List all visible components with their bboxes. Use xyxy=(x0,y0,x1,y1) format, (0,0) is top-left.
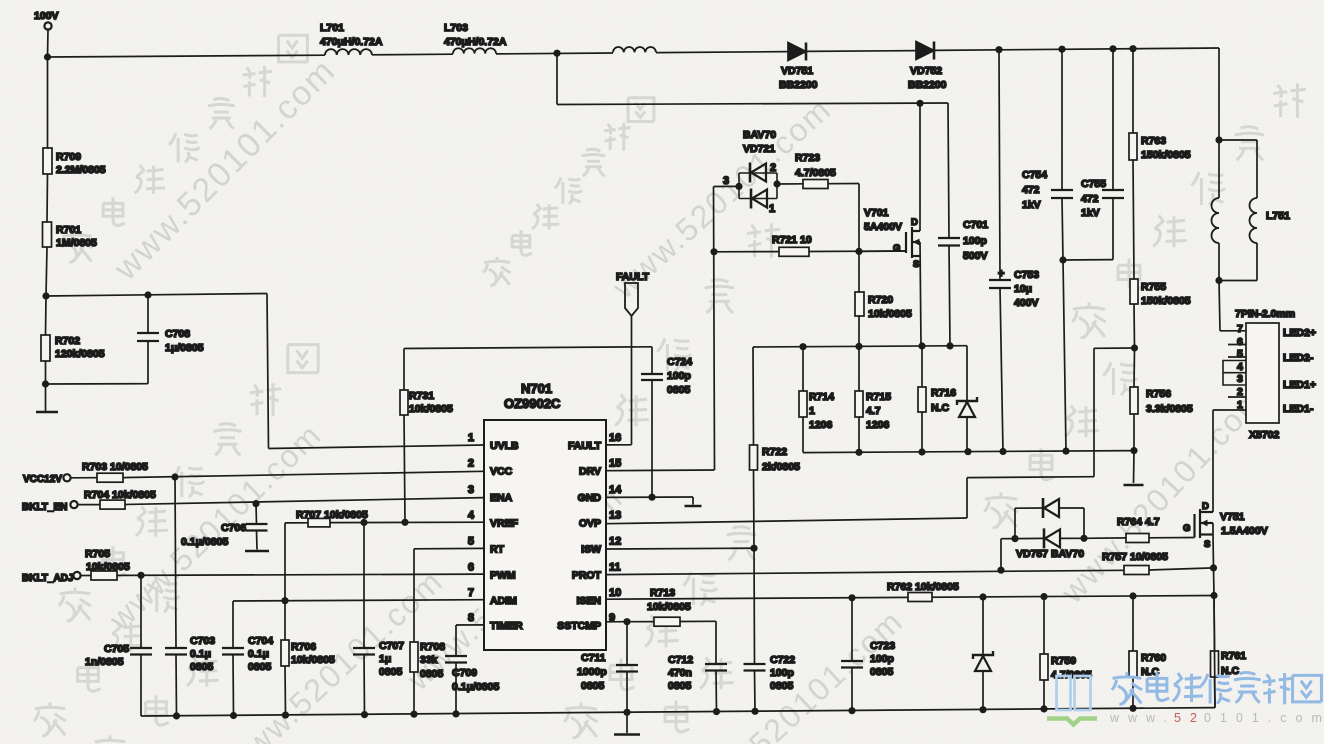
watermark chinese run right-top xyxy=(1072,303,1106,338)
diode VD757 D2 symbol xyxy=(1043,528,1046,548)
connector X8702 body xyxy=(1246,323,1279,423)
resistor R713 xyxy=(654,617,680,626)
watermark chinese run right-mid xyxy=(984,493,1018,528)
svg-text:0805: 0805 xyxy=(190,661,214,673)
wire V701 drain lead xyxy=(919,103,921,231)
wire C704 bottom lead xyxy=(232,655,235,716)
resistor R703 xyxy=(97,473,123,482)
svg-text:SSTCMP: SSTCMP xyxy=(557,620,601,632)
svg-text:VD751: VD751 xyxy=(781,65,813,77)
junction VREF/R731 xyxy=(401,519,408,526)
svg-text:R756: R756 xyxy=(1146,388,1171,400)
wire OVP jog right xyxy=(967,476,1094,479)
junction lower R716 xyxy=(918,448,925,455)
svg-text:C711: C711 xyxy=(581,652,606,664)
wire pin13 OVP xyxy=(606,518,967,524)
wire L751 right top lead xyxy=(1256,140,1258,198)
svg-text:1206: 1206 xyxy=(866,419,890,431)
resistor R755 xyxy=(1130,279,1138,304)
resistor R756 xyxy=(1130,387,1138,414)
wire R705 to pin6 PWM xyxy=(117,574,484,575)
wire DRV vertical to gate node xyxy=(714,187,715,471)
terminal BKLT_ADJ xyxy=(73,572,80,579)
inductor L751 left winding xyxy=(1212,198,1220,243)
wire V751 source down xyxy=(1212,535,1215,568)
svg-text:LED1+: LED1+ xyxy=(1283,379,1316,391)
resistor R721 xyxy=(779,247,809,256)
wire R763-R755 xyxy=(1133,160,1134,279)
svg-text:R731: R731 xyxy=(409,390,434,402)
resistor R759 xyxy=(1040,654,1048,680)
wire VD757 right vertical xyxy=(1083,508,1085,538)
svg-text:8: 8 xyxy=(468,612,474,624)
wire VD757 bottom right xyxy=(1060,537,1084,539)
svg-text:5A400V: 5A400V xyxy=(864,221,902,233)
svg-text:R721 10: R721 10 xyxy=(772,234,812,246)
junction VD721 pin3 xyxy=(735,183,742,190)
watermark chinese run center-up xyxy=(483,257,510,286)
diode zener VD1 xyxy=(957,397,977,405)
junction L751 bottom xyxy=(1215,277,1222,284)
svg-text:FAULT: FAULT xyxy=(568,440,602,452)
svg-text:BB2200: BB2200 xyxy=(779,79,818,91)
junction R721/R723/R720 xyxy=(855,248,862,255)
wire C712 top lead xyxy=(715,621,717,664)
svg-text:10k/0805: 10k/0805 xyxy=(868,308,912,320)
svg-text:1kV: 1kV xyxy=(1022,199,1041,211)
logo icon open book xyxy=(1047,676,1097,725)
wire R714 top lead xyxy=(802,347,804,391)
svg-text:16: 16 xyxy=(609,432,621,444)
junction bus R760 xyxy=(1129,705,1136,712)
svg-text:R704 10k/0805: R704 10k/0805 xyxy=(84,489,156,501)
capacitor C724 xyxy=(641,374,663,380)
junction bus C707 xyxy=(361,711,368,718)
resistor R722 xyxy=(750,445,758,470)
wire R760 top lead xyxy=(1132,596,1134,651)
watermark chinese run top-left xyxy=(62,230,92,262)
svg-text:OZ9902C: OZ9902C xyxy=(504,396,561,411)
junction bus R708 xyxy=(410,711,417,718)
capacitor C712 xyxy=(705,664,727,671)
wire pin15 DRV xyxy=(606,469,715,472)
ground sense chain xyxy=(1124,484,1144,487)
svg-text:1: 1 xyxy=(769,203,775,215)
junction C708 top xyxy=(144,291,151,298)
svg-text:BB2200: BB2200 xyxy=(908,79,947,91)
wire C712 bottom lead xyxy=(715,671,718,712)
wire C708 return xyxy=(46,383,149,385)
node FAULT flag xyxy=(625,283,638,316)
wire to R764 xyxy=(1084,537,1126,539)
wire R709 top xyxy=(47,57,49,148)
svg-text:11: 11 xyxy=(609,561,621,573)
junction sense R714 xyxy=(799,343,806,350)
svg-text:R764 4.7: R764 4.7 xyxy=(1117,516,1160,528)
svg-text:G: G xyxy=(1183,523,1190,534)
wire to R713 xyxy=(627,621,654,623)
svg-text:52: 52 xyxy=(1174,711,1206,725)
wire UVLB vertical xyxy=(267,294,269,449)
junction lower R756 xyxy=(1130,447,1137,454)
svg-text:PROT: PROT xyxy=(572,569,602,581)
junction bus C722 xyxy=(751,708,758,715)
svg-text:ADIM: ADIM xyxy=(490,595,517,607)
wire C707 top lead xyxy=(363,523,365,649)
wire V751 body-source xyxy=(1212,523,1214,535)
svg-text:0805: 0805 xyxy=(581,680,605,692)
junction L751 top xyxy=(1215,136,1222,143)
wire C703 top lead xyxy=(175,477,176,648)
svg-text:0.1μ/0805: 0.1μ/0805 xyxy=(452,681,499,693)
svg-text:C707: C707 xyxy=(379,640,404,652)
junction bus R759 xyxy=(1040,705,1047,712)
wire C707 bottom lead xyxy=(363,655,366,715)
junction rail C754 xyxy=(1058,46,1065,53)
wire R731 top lead xyxy=(403,349,405,391)
wire C754-C755 join xyxy=(1063,259,1113,261)
wire C724 bottom lead xyxy=(651,381,653,498)
wire zener1 top lead xyxy=(966,346,968,401)
resistor R714 xyxy=(799,391,807,417)
logo chinese text xyxy=(1112,672,1322,704)
diode VD721 D2 xyxy=(750,189,753,209)
wire R723 right xyxy=(828,183,859,185)
svg-text:0.1μ: 0.1μ xyxy=(248,648,269,660)
resistor R731 xyxy=(400,390,408,415)
svg-text:R707 10k/0805: R707 10k/0805 xyxy=(296,509,368,521)
svg-text:1μ/0805: 1μ/0805 xyxy=(165,342,204,354)
wire top rail seg2 xyxy=(372,53,453,56)
junction VCC/C703 xyxy=(171,473,178,480)
resistor R760 xyxy=(1129,651,1137,677)
wire BKLT_ADJ to R705 xyxy=(81,575,91,577)
wire VD757 to PROT xyxy=(1000,539,1002,571)
capacitor C708 xyxy=(137,333,159,341)
watermark chinese run mid-left xyxy=(59,587,91,621)
svg-text:R702: R702 xyxy=(55,335,80,347)
svg-text:N701: N701 xyxy=(521,381,552,396)
svg-text:7PIN-2.0mm: 7PIN-2.0mm xyxy=(1235,308,1295,320)
svg-text:0101.com: 0101.com xyxy=(1204,711,1324,725)
junction sense R716 xyxy=(918,342,925,349)
svg-text:6: 6 xyxy=(1237,336,1243,348)
svg-text:1206: 1206 xyxy=(809,419,833,431)
capacitor C707 xyxy=(353,648,375,655)
wire pin6 stub xyxy=(1228,344,1246,346)
svg-text:6: 6 xyxy=(468,561,474,573)
svg-text:1M/0805: 1M/0805 xyxy=(56,237,97,249)
svg-text:R716: R716 xyxy=(931,387,956,399)
wire R731 to C724 top xyxy=(404,347,652,349)
wire divider to C708/UVLB xyxy=(46,294,267,297)
resistor R705 xyxy=(91,571,117,580)
wire C722 top lead xyxy=(753,548,756,664)
resistor R723 xyxy=(803,180,828,189)
svg-text:10μ: 10μ xyxy=(1014,283,1032,295)
wire C755 top lead xyxy=(1112,49,1114,190)
wire R721 left xyxy=(714,251,779,253)
svg-text:GND: GND xyxy=(578,492,602,504)
svg-text:R757 10/0805: R757 10/0805 xyxy=(1102,551,1168,563)
wire top rail seg6 xyxy=(934,48,1219,50)
wire pin14 GND xyxy=(606,496,693,498)
junction rail2 V701 D xyxy=(916,100,923,107)
wire C709 top lead xyxy=(455,625,457,656)
svg-text:L701: L701 xyxy=(320,22,344,34)
op-amp U1: IC N701 OZ9902C body xyxy=(484,420,606,650)
resistor R715 xyxy=(855,391,863,417)
svg-text:TIMER: TIMER xyxy=(490,620,523,632)
wire C701 bottom lead xyxy=(949,246,950,346)
svg-text:100p: 100p xyxy=(963,235,987,247)
svg-text:C706: C706 xyxy=(221,522,246,534)
svg-text:10k/0805: 10k/0805 xyxy=(291,654,335,666)
svg-text:150k/0805: 150k/0805 xyxy=(1141,295,1191,307)
svg-text:L751: L751 xyxy=(1266,210,1290,222)
svg-text:R713: R713 xyxy=(650,587,675,599)
junction bus C703 xyxy=(173,712,180,719)
wire OVP to R755/R756 xyxy=(1094,347,1135,349)
svg-text:2k/0805: 2k/0805 xyxy=(762,461,800,473)
wire source to bus xyxy=(1214,596,1215,708)
wire R723 to gate node xyxy=(858,184,860,252)
svg-text:C724: C724 xyxy=(667,356,692,368)
svg-text:14: 14 xyxy=(609,484,622,496)
junction VD757 left xyxy=(1011,535,1018,542)
wire R714 bottom lead xyxy=(802,417,804,453)
resistor R708 xyxy=(410,642,418,672)
svg-text:C723: C723 xyxy=(870,640,895,652)
svg-text:R760: R760 xyxy=(1141,652,1166,664)
svg-text:www.: www. xyxy=(1109,711,1176,725)
svg-text:VCC12V: VCC12V xyxy=(23,474,62,485)
watermark chinese run bottom-left corner xyxy=(94,735,126,744)
resistor R704 xyxy=(100,500,125,509)
junction VREF/C707 xyxy=(360,519,367,526)
wire R716 top lead xyxy=(921,346,923,387)
junction R755/R756/OVP xyxy=(1131,344,1138,351)
svg-text:ISW: ISW xyxy=(581,544,601,556)
svg-text:R703 10/0805: R703 10/0805 xyxy=(82,461,148,473)
junction sense C701 xyxy=(946,342,953,349)
resistor R761 xyxy=(1211,651,1219,677)
watermark chinese run bottom-left xyxy=(34,702,66,736)
wire OVP vertical xyxy=(1093,348,1095,476)
wire zener2 top lead xyxy=(982,597,984,655)
ground left divider xyxy=(36,411,58,414)
svg-text:R722: R722 xyxy=(762,446,787,458)
wire sense rail bottom xyxy=(803,451,1134,453)
junction R702/C708 xyxy=(42,380,49,387)
svg-text:5: 5 xyxy=(468,536,474,548)
wire R707 left xyxy=(285,522,308,524)
svg-text:R759: R759 xyxy=(1051,655,1076,667)
wire C705 top lead xyxy=(140,575,142,648)
svg-text:4.7/0805: 4.7/0805 xyxy=(795,167,836,179)
svg-text:0805: 0805 xyxy=(379,666,403,678)
junction 100V rail xyxy=(44,53,51,60)
svg-text:4: 4 xyxy=(468,509,475,521)
capacitor C723 xyxy=(841,661,863,668)
wire VD757 left vertical xyxy=(1014,508,1016,538)
wire L751 left top lead xyxy=(1218,140,1220,198)
svg-text:D: D xyxy=(1202,501,1209,512)
svg-text:R714: R714 xyxy=(809,391,834,403)
svg-text:2.2M/0805: 2.2M/0805 xyxy=(56,164,106,176)
junction R757/V751 S xyxy=(1210,564,1217,571)
wire pin2 stub xyxy=(1228,396,1246,398)
wire C754C755 to lower rail xyxy=(1063,260,1066,451)
svg-text:R755: R755 xyxy=(1141,281,1166,293)
svg-text:1: 1 xyxy=(468,432,474,444)
ground pin14 xyxy=(685,505,702,508)
junction PWM/C705 xyxy=(137,572,144,579)
wire R702 top xyxy=(45,296,48,335)
wire R757 to V751 source xyxy=(1149,568,1214,570)
svg-text:C703: C703 xyxy=(190,635,215,647)
svg-text:X8702: X8702 xyxy=(1249,429,1280,441)
svg-text:BAV70: BAV70 xyxy=(743,129,776,141)
wire pin16 FAULT xyxy=(606,444,632,446)
svg-text:120k/0805: 120k/0805 xyxy=(55,348,105,360)
svg-text:500V: 500V xyxy=(963,250,988,262)
svg-text:1kV: 1kV xyxy=(1081,207,1100,219)
svg-text:R762 10k/0805: R762 10k/0805 xyxy=(887,581,959,593)
wire R731 bottom lead xyxy=(404,415,405,522)
svg-text:0805: 0805 xyxy=(248,661,272,673)
diode VD751 xyxy=(788,43,806,61)
svg-text:7: 7 xyxy=(1237,323,1243,335)
svg-text:LED2-: LED2- xyxy=(1283,352,1314,364)
svg-text:100p: 100p xyxy=(667,370,691,382)
svg-text:15: 15 xyxy=(609,458,621,470)
junction lower R715 xyxy=(855,449,862,456)
svg-text:12: 12 xyxy=(609,536,621,548)
wire TIMER to C709 xyxy=(456,624,484,626)
inductor L701 xyxy=(325,49,372,55)
wire pin7 stub xyxy=(1220,330,1246,332)
svg-text:0805: 0805 xyxy=(770,680,794,692)
wire R708 bottom lead xyxy=(413,672,415,714)
svg-text:R720: R720 xyxy=(868,294,893,306)
junction ENA/C706 xyxy=(252,500,259,507)
wire bottom bus xyxy=(141,708,1215,716)
svg-text:R723: R723 xyxy=(795,152,820,164)
resistor R720 xyxy=(855,292,864,316)
inductor L705 xyxy=(613,47,656,52)
terminal 100V xyxy=(44,22,51,29)
wire R756 top lead xyxy=(1133,348,1136,387)
svg-text:C712: C712 xyxy=(668,654,693,666)
svg-text:C708: C708 xyxy=(165,328,190,340)
junction bus C709 xyxy=(452,710,459,717)
junction ISEN/V751 S xyxy=(1210,592,1217,599)
svg-text:0805: 0805 xyxy=(870,666,894,678)
svg-text:RT: RT xyxy=(490,544,505,556)
junction lower C754 xyxy=(1062,448,1069,455)
svg-text:C701: C701 xyxy=(963,219,988,231)
inductor L703 xyxy=(453,48,496,53)
jumper pins 4-3 X8702 xyxy=(1223,361,1246,386)
wire R722 bottom lead xyxy=(753,470,756,548)
svg-text:PWM: PWM xyxy=(490,569,516,581)
wire R764 to gate xyxy=(1149,537,1195,539)
svg-text:100p: 100p xyxy=(870,653,894,665)
svg-text:470μH/0.72A: 470μH/0.72A xyxy=(444,36,507,48)
wire gate to R721 xyxy=(859,250,906,252)
wire zener1 bottom lead xyxy=(966,417,968,452)
svg-text:0805: 0805 xyxy=(668,680,692,692)
wire R720 top lead xyxy=(858,251,860,292)
wire R715 bottom lead xyxy=(858,417,860,452)
terminal VCC12V xyxy=(63,474,70,481)
wire C711 bottom lead xyxy=(626,672,628,713)
wire L751 left bottom lead xyxy=(1218,243,1220,281)
wire C753 top lead xyxy=(999,50,1000,279)
svg-text:ENA: ENA xyxy=(490,492,513,504)
wire FAULT stem xyxy=(631,316,633,445)
junction bus zener xyxy=(979,706,986,713)
wire VD721 to R723 xyxy=(777,183,803,185)
wire top rail seg1 xyxy=(48,55,326,57)
wire second rail xyxy=(557,103,948,105)
svg-text:R706: R706 xyxy=(291,641,316,653)
wire VD757 bottom left xyxy=(1015,537,1044,539)
svg-text:150k/0805: 150k/0805 xyxy=(1141,149,1191,161)
svg-text:1μ: 1μ xyxy=(379,653,391,665)
inductor L751 right winding xyxy=(1250,198,1258,243)
svg-text:C754: C754 xyxy=(1022,169,1047,181)
svg-text:7: 7 xyxy=(468,587,474,599)
svg-text:V751: V751 xyxy=(1220,511,1245,523)
wire VD757 tap left xyxy=(1001,538,1015,540)
junction VD757 right xyxy=(1080,535,1087,542)
svg-text:VD752: VD752 xyxy=(910,65,942,77)
wire C724 top lead xyxy=(651,347,653,374)
capacitor C753 xyxy=(989,280,1011,288)
svg-text:UVLB: UVLB xyxy=(490,440,519,452)
svg-text:100V: 100V xyxy=(34,10,59,22)
wire C708 bottom lead xyxy=(147,341,149,384)
junction divider xyxy=(42,292,49,299)
junction rail C755 xyxy=(1109,45,1116,52)
resistor R709 xyxy=(43,148,52,174)
wire ADIM line xyxy=(233,600,484,601)
junction GND/C724 xyxy=(648,494,655,501)
svg-text:VREF: VREF xyxy=(490,517,519,529)
wire C704 top lead xyxy=(232,601,234,648)
wire C753 bottom lead xyxy=(1000,288,1003,452)
wire L751 top feed xyxy=(1218,48,1220,140)
svg-text:BKLT_ADJ: BKLT_ADJ xyxy=(22,573,73,584)
wire UVLB to pin1 xyxy=(269,445,485,449)
capacitor C709 xyxy=(445,656,467,663)
wire C723 top lead xyxy=(851,598,853,661)
svg-text:N.C: N.C xyxy=(931,402,950,414)
svg-text:VD757 BAV70: VD757 BAV70 xyxy=(1016,548,1084,560)
svg-text:+: + xyxy=(998,268,1004,280)
svg-text:C753: C753 xyxy=(1014,269,1039,281)
junction bus C704 xyxy=(230,712,237,719)
wire R720 bottom lead xyxy=(858,316,860,346)
wire R703 to pin2 VCC xyxy=(123,471,484,477)
wire pin9 SSTCMP xyxy=(606,621,627,623)
wire C703 bottom lead xyxy=(175,655,178,716)
wire C722 bottom lead xyxy=(754,671,757,712)
junction ISW/R722 xyxy=(750,545,757,552)
svg-text:3: 3 xyxy=(1237,373,1243,385)
